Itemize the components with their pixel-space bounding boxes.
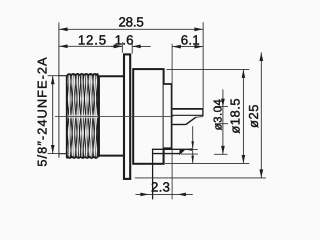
small vertical dimension at tab tip: [192, 126, 194, 163]
thread right edge (thick): [98, 76, 100, 157]
svg-text:28.5: 28.5: [118, 14, 143, 29]
svg-text:6.1: 6.1: [181, 33, 200, 48]
dimension 2.3 bottom: [135, 193, 192, 195]
svg-text:ø18.5: ø18.5: [227, 98, 242, 134]
extension line pin tip / right end: [202, 22, 204, 116]
tab tip upper extension with arrow: [184, 149, 198, 151]
rear step cylinder: [164, 84, 172, 148]
1.6 right extension: [131, 42, 133, 53]
dimension 1.6 (flange thickness): [111, 45, 122, 47]
plain cylinder bottom edge: [98, 155, 123, 157]
svg-text:ø25: ø25: [246, 104, 261, 128]
dia 3.04 dimension: [222, 89, 224, 154]
thread spec text 5/8"-24UNFE-2A: [34, 56, 49, 166]
center pin mid line: [172, 114, 203, 116]
pin base taper diagonal: [186, 117, 196, 124]
thread label dimension line: [52, 76, 54, 154]
dia 25 dimension: [135, 177, 266, 179]
thread bottom flat: [59, 153, 67, 155]
solder tab bottom edge: [152, 153, 180, 155]
long extension line at rear step face: [171, 44, 173, 200]
pin tip face: [202, 108, 204, 115]
dia 18.5 dimension: [167, 68, 250, 70]
solder tab tip chamfer: [180, 150, 185, 154]
svg-text:ø3.04: ø3.04: [212, 99, 224, 131]
centerline: [55, 115, 173, 117]
thread hatch curves: [61, 74, 104, 158]
svg-text:1.6: 1.6: [115, 33, 134, 48]
dimension 12.5: [59, 45, 122, 47]
plain cylinder top edge: [98, 75, 123, 77]
thread left edge: [66, 75, 68, 154]
body rectangle: [133, 69, 163, 164]
flange rectangle: [124, 54, 130, 178]
1.6 left extension: [121, 42, 123, 53]
solder tab top edge: [152, 148, 190, 150]
dimension 6.1 (pin protrusion): [172, 46, 203, 48]
dimension 28.5 top: [59, 28, 203, 30]
tab right hanger (below body edge): [163, 154, 165, 164]
connector left face line: [58, 23, 60, 158]
center pin top edge: [172, 108, 203, 110]
tab left edge / 2.3 left extension: [152, 149, 154, 200]
pin taper tail line: [196, 116, 203, 119]
thread top flat: [59, 75, 67, 77]
svg-text:5/8″-24UNFE-2A: 5/8″-24UNFE-2A: [34, 56, 49, 166]
pin base bottom edge: [172, 124, 186, 126]
svg-text:2.3: 2.3: [151, 180, 170, 195]
svg-text:12.5: 12.5: [78, 33, 107, 48]
tab bottom extension line: [181, 153, 198, 155]
